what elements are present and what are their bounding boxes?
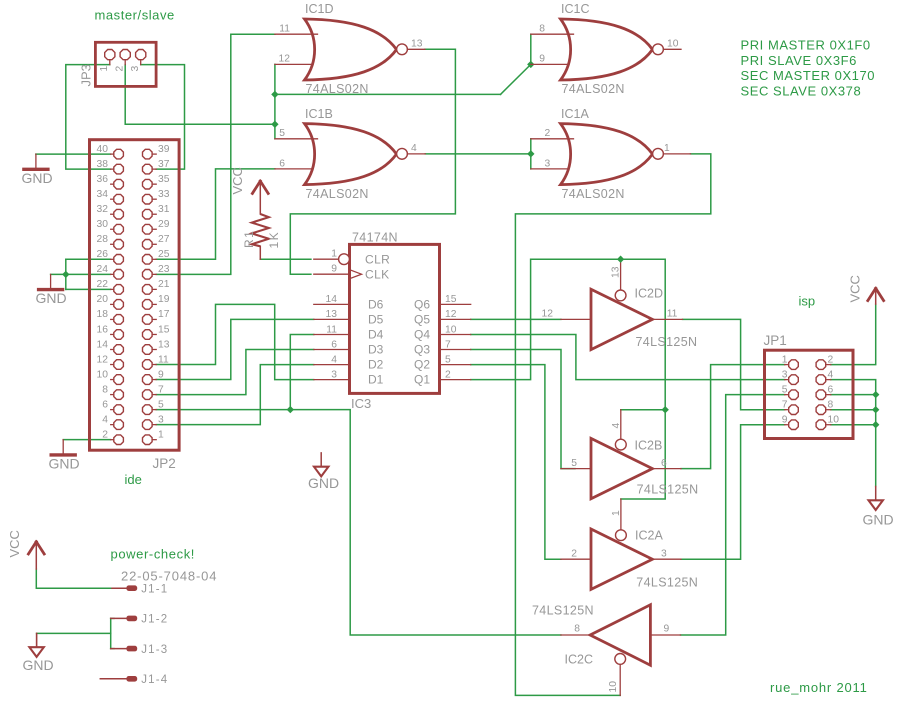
svg-text:1K: 1K	[267, 231, 281, 249]
pin J1-2	[111, 617, 127, 619]
svg-text:17: 17	[158, 309, 170, 320]
svg-text:74LS125N: 74LS125N	[637, 483, 699, 497]
pad JP1 pin 7	[789, 405, 799, 415]
svg-text:10: 10	[445, 324, 457, 335]
pin J1-1	[112, 587, 126, 589]
pad JP3 pin 2	[120, 50, 130, 60]
svg-text:6: 6	[828, 385, 834, 396]
wire JP2 pin 11 to IC3 D1	[156, 304, 314, 379]
svg-text:D1: D1	[368, 373, 384, 387]
svg-text:23: 23	[158, 264, 170, 275]
junction node B	[271, 91, 278, 98]
svg-text:6: 6	[331, 339, 337, 350]
pad JP2 pin 27	[143, 240, 153, 250]
wire IC2A pin 1 drop	[620, 499, 622, 530]
svg-text:11: 11	[279, 24, 290, 35]
svg-text:IC1A: IC1A	[561, 107, 589, 121]
pad JP2 pin 15	[143, 330, 153, 340]
svg-text:11: 11	[326, 324, 337, 335]
svg-text:1: 1	[331, 249, 337, 260]
pad JP2 pin 14	[114, 345, 124, 355]
pin J1-4	[100, 678, 126, 680]
wire JP1 pins 4 6 8 10 to GND	[831, 380, 876, 487]
pad JP2 pin 19	[143, 300, 153, 310]
pin IC3 Q1	[440, 379, 471, 381]
svg-text:JP1: JP1	[764, 333, 787, 348]
ground GND2 mid left	[50, 274, 52, 288]
pad JP3 pin 1	[105, 50, 115, 60]
buffer IC2D 74LS125N	[591, 289, 652, 349]
svg-text:74ALS02N: 74ALS02N	[562, 187, 625, 201]
wire node A up to node B (IC1D pin12)	[274, 94, 276, 124]
wire IC3 Q3 to IC2B input 5	[471, 350, 575, 469]
ground GND6 right	[875, 487, 877, 501]
svg-text:22: 22	[97, 279, 109, 290]
pad JP2 pin 16	[114, 330, 124, 340]
svg-text:5: 5	[571, 458, 577, 469]
svg-text:1: 1	[158, 429, 164, 440]
svg-text:10: 10	[828, 415, 840, 426]
pin IC3 D4	[314, 334, 350, 336]
svg-text:25: 25	[158, 249, 170, 260]
svg-text:12: 12	[542, 309, 554, 320]
svg-text:74ALS02N: 74ALS02N	[562, 82, 625, 96]
svg-text:22-05-7048-04: 22-05-7048-04	[121, 569, 217, 584]
wire IC2D output 11 to JP1 pin 7	[683, 319, 785, 409]
svg-text:5: 5	[445, 354, 451, 365]
wire node B to IC1C inputs	[275, 93, 501, 95]
svg-text:3: 3	[331, 369, 337, 380]
svg-text:Q6: Q6	[414, 297, 430, 311]
pin IC3 D5	[314, 318, 350, 320]
supply VCC near R1	[252, 181, 260, 193]
junction IC2D enable	[617, 256, 624, 263]
svg-text:12: 12	[279, 54, 291, 65]
svg-text:power-check!: power-check!	[111, 547, 196, 562]
pad JP2 pin 28	[114, 240, 124, 250]
wire IC2C input 9 to JP1 pin 5	[681, 395, 785, 635]
svg-text:IC1D: IC1D	[305, 2, 333, 16]
wire IC1C input bracket	[530, 34, 532, 64]
pin J1-3	[111, 648, 127, 650]
svg-text:isp: isp	[799, 294, 816, 309]
svg-text:30: 30	[97, 219, 109, 230]
pad JP2 pin 11	[143, 360, 153, 370]
svg-text:19: 19	[158, 294, 170, 305]
svg-text:J1-2: J1-2	[141, 614, 168, 626]
wire IC2C pin 10 stub	[619, 664, 621, 695]
svg-text:3: 3	[130, 66, 141, 72]
svg-text:D2: D2	[368, 358, 384, 372]
svg-text:18: 18	[97, 309, 109, 320]
pad JP3 pin 3	[136, 50, 146, 60]
svg-text:29: 29	[158, 219, 170, 230]
pad JP2 pin 22	[114, 285, 124, 295]
svg-text:SEC SLAVE 0X378: SEC SLAVE 0X378	[741, 84, 862, 99]
svg-text:8: 8	[574, 624, 580, 635]
svg-text:GND: GND	[36, 290, 67, 306]
resistor R1 1K	[252, 214, 269, 246]
wire IC3 Q1 to buffer enables	[471, 259, 666, 499]
supply VCC right	[868, 288, 876, 300]
pad JP2 pin 7	[143, 390, 153, 400]
pad JP2 pin 37	[143, 164, 153, 174]
ground GND1 top left	[35, 154, 37, 168]
wire JP2 pin 23 to IC1D pin 11	[156, 34, 275, 274]
svg-text:36: 36	[97, 174, 109, 185]
wire IC1A input bracket	[530, 139, 532, 169]
svg-text:74ALS02N: 74ALS02N	[306, 187, 369, 201]
svg-text:21: 21	[158, 279, 170, 290]
wire IC1B output 4 to IC1A inputs	[425, 153, 531, 155]
svg-text:5: 5	[782, 385, 788, 396]
wire IC3 Q2 to IC2A input 2	[471, 365, 561, 560]
buffer IC2C 74LS125N mirrored	[590, 605, 650, 665]
svg-text:35: 35	[158, 174, 170, 185]
svg-text:8: 8	[828, 400, 834, 411]
svg-text:3: 3	[545, 158, 551, 169]
svg-text:14: 14	[97, 339, 109, 350]
svg-text:R1: R1	[242, 230, 256, 248]
svg-text:6: 6	[661, 458, 667, 469]
svg-text:40: 40	[97, 144, 109, 155]
svg-text:rue_mohr 2011: rue_mohr 2011	[770, 680, 868, 695]
svg-text:IC1C: IC1C	[561, 2, 589, 16]
svg-text:10: 10	[667, 38, 679, 49]
svg-text:J1-1: J1-1	[141, 583, 168, 595]
pin IC3 D6	[314, 303, 350, 305]
svg-text:74LS125N: 74LS125N	[636, 576, 698, 590]
svg-text:IC1B: IC1B	[305, 107, 333, 121]
junction JP1 pin 8 GND	[872, 406, 879, 413]
junction D4 net	[287, 406, 294, 413]
pad JP1 pin 9	[789, 420, 799, 430]
svg-text:GND: GND	[308, 475, 339, 491]
svg-text:4: 4	[102, 414, 108, 425]
svg-text:27: 27	[158, 234, 170, 245]
pad JP1 pin 1	[789, 360, 799, 370]
svg-text:3: 3	[782, 370, 788, 381]
svg-text:11: 11	[667, 309, 678, 320]
svg-text:PRI SLAVE 0X3F6: PRI SLAVE 0X3F6	[741, 53, 857, 68]
svg-text:IC3: IC3	[351, 396, 371, 411]
svg-text:37: 37	[158, 159, 170, 170]
svg-text:1: 1	[99, 66, 110, 72]
svg-text:74174N: 74174N	[352, 231, 398, 245]
svg-text:J1-4: J1-4	[141, 674, 168, 686]
svg-text:13: 13	[411, 38, 423, 49]
wire R1 to IC3 CLR	[260, 258, 311, 260]
junction JP1 pin 6 GND	[872, 391, 879, 398]
ground GND5 bottom left	[36, 633, 38, 646]
svg-text:Q4: Q4	[414, 328, 430, 342]
wire JP2 pin 5 to junction	[156, 409, 290, 411]
pin IC3 CLK	[314, 273, 350, 275]
svg-text:32: 32	[97, 204, 109, 215]
svg-text:6: 6	[279, 158, 285, 169]
wire GND3 to JP2 pin 2	[63, 439, 110, 441]
wire JP2 pin 9 to IC3 D5	[156, 319, 314, 379]
pad JP2 pin 40	[114, 149, 124, 159]
pad JP2 pin 33	[143, 194, 153, 204]
svg-text:7: 7	[158, 384, 164, 395]
svg-text:3: 3	[158, 414, 164, 425]
svg-text:9: 9	[664, 624, 670, 635]
svg-text:CLK: CLK	[365, 268, 390, 282]
svg-text:8: 8	[102, 384, 108, 395]
svg-text:1: 1	[782, 355, 788, 366]
wire JP3 pin 2 down to node A	[125, 65, 275, 125]
pin IC3 Q5	[440, 318, 471, 320]
svg-text:D5: D5	[368, 312, 384, 326]
pad JP2 pin 3	[143, 420, 153, 430]
svg-text:7: 7	[782, 400, 788, 411]
svg-text:5: 5	[158, 399, 164, 410]
svg-text:10: 10	[608, 681, 619, 693]
nor gate IC1A 74ALS02N	[561, 124, 653, 185]
wire GND2 junction to JP2 pins 26 24 22	[51, 273, 66, 275]
svg-text:5: 5	[279, 128, 285, 139]
pin IC3 Q4	[440, 334, 471, 336]
pin IC3 CLR	[314, 258, 339, 260]
pad JP2 pin 10	[114, 375, 124, 385]
svg-text:1: 1	[664, 143, 670, 154]
svg-text:2: 2	[445, 369, 451, 380]
svg-text:13: 13	[611, 266, 622, 278]
wire JP3 pin 3 to JP2 pin 37	[141, 65, 185, 170]
svg-text:16: 16	[97, 324, 109, 335]
svg-text:33: 33	[158, 189, 170, 200]
svg-text:11: 11	[158, 354, 169, 365]
pad JP2 pin 9	[143, 375, 153, 385]
wire node B to IC1D pin 12	[274, 64, 276, 94]
svg-text:9: 9	[539, 54, 545, 65]
wire IC2A output 3 to JP1 pin 9	[681, 425, 785, 559]
svg-text:26: 26	[97, 249, 109, 260]
pad JP2 pin 25	[143, 255, 153, 265]
svg-text:JP3: JP3	[79, 64, 94, 86]
svg-text:14: 14	[326, 294, 338, 305]
svg-text:D4: D4	[368, 328, 384, 342]
wire JP2 pin 3 to IC3 D2	[156, 365, 314, 425]
svg-text:6: 6	[102, 399, 108, 410]
svg-text:ide: ide	[125, 472, 142, 487]
svg-text:9: 9	[158, 369, 164, 380]
pad JP2 pin 24	[114, 270, 124, 280]
pad JP2 pin 4	[114, 420, 124, 430]
pad JP1 pin 3	[789, 375, 799, 385]
svg-text:master/slave: master/slave	[95, 7, 175, 22]
svg-text:IC2A: IC2A	[635, 529, 663, 543]
supply VCC bottom left	[28, 542, 36, 554]
svg-text:2: 2	[115, 65, 126, 71]
pad JP2 pin 34	[114, 194, 124, 204]
wire VCC to J1-1	[36, 569, 112, 588]
wire enable drop to IC2D pin 13	[620, 259, 622, 290]
connector JP3	[95, 42, 156, 86]
wire IC3 Q5 to IC2D input 12	[471, 318, 561, 320]
pad JP2 pin 6	[114, 405, 124, 415]
svg-text:JP2: JP2	[153, 456, 176, 471]
svg-text:3: 3	[661, 548, 667, 559]
wire GND to JP2 pin 40	[36, 153, 111, 155]
nor gate IC1D 74ALS02N	[305, 19, 397, 80]
svg-text:D6: D6	[368, 297, 384, 311]
buffer IC2A 74LS125N	[591, 529, 652, 589]
pad JP1 pin 4	[816, 375, 826, 385]
svg-text:9: 9	[331, 264, 337, 275]
pad JP2 pin 29	[143, 224, 153, 234]
connector JP1 isp	[765, 350, 854, 438]
svg-text:8: 8	[539, 24, 545, 35]
svg-text:VCC: VCC	[848, 275, 863, 302]
junction JP1 pin 10 GND	[872, 421, 879, 428]
svg-text:4: 4	[828, 370, 834, 381]
svg-text:28: 28	[97, 234, 109, 245]
pad JP1 pin 5	[789, 390, 799, 400]
svg-text:GND: GND	[23, 657, 54, 673]
svg-text:9: 9	[782, 415, 788, 426]
svg-text:GND: GND	[49, 456, 80, 472]
pin IC3 D3	[314, 349, 350, 351]
pad JP2 pin 38	[114, 164, 124, 174]
svg-text:PRI MASTER 0X1F0: PRI MASTER 0X1F0	[741, 37, 871, 52]
wire JP2 pin 25 to IC1B pin 6	[156, 169, 275, 259]
svg-text:GND: GND	[863, 512, 894, 528]
pad JP2 pin 31	[143, 209, 153, 219]
wire diagonal to IC1C inputs	[501, 64, 531, 94]
nor gate IC1C 74ALS02N	[561, 19, 653, 80]
svg-text:24: 24	[97, 264, 109, 275]
svg-text:31: 31	[158, 204, 170, 215]
pin IC3 Q2	[440, 364, 471, 366]
pad JP2 pin 21	[143, 285, 153, 295]
pad JP2 pin 12	[114, 360, 124, 370]
svg-text:2: 2	[545, 128, 551, 139]
wire IC1D output 13 to IC3 CLK	[290, 49, 455, 274]
connector JP2 ide	[90, 140, 180, 451]
wire IC3 Q4 to JP1 pin 3	[471, 335, 785, 380]
svg-text:12: 12	[97, 354, 109, 365]
pin IC3 D2	[314, 364, 350, 366]
svg-text:2: 2	[828, 355, 834, 366]
svg-text:4: 4	[411, 143, 417, 154]
pin IC3 Q3	[440, 349, 471, 351]
wire IC2B output 6 to JP1 pin 1	[681, 365, 785, 469]
pad JP2 pin 30	[114, 224, 124, 234]
svg-text:4: 4	[611, 423, 622, 429]
svg-text:J1-3: J1-3	[141, 644, 168, 656]
pad JP2 pin 26	[114, 255, 124, 265]
svg-text:34: 34	[97, 189, 109, 200]
svg-text:38: 38	[97, 159, 109, 170]
junction GND2 branch	[62, 271, 69, 278]
svg-text:39: 39	[158, 144, 170, 155]
wire GND to J1-2 J1-3	[37, 632, 111, 634]
pad JP1 pin 2	[816, 360, 826, 370]
pad JP2 pin 39	[143, 149, 153, 159]
ground GND4 below IC3	[320, 453, 322, 467]
svg-text:VCC: VCC	[230, 167, 245, 194]
svg-text:GND: GND	[22, 170, 53, 186]
ground GND3 bottom left of JP2	[62, 440, 64, 454]
ic IC3 74174N box	[350, 244, 440, 393]
junction node A	[271, 121, 278, 128]
svg-text:2: 2	[571, 548, 577, 559]
pad JP2 pin 35	[143, 179, 153, 189]
svg-text:1: 1	[611, 510, 622, 516]
svg-text:SEC MASTER 0X170: SEC MASTER 0X170	[741, 68, 876, 83]
svg-text:Q1: Q1	[414, 373, 430, 387]
svg-text:IC2B: IC2B	[635, 438, 663, 452]
svg-text:13: 13	[158, 339, 170, 350]
svg-text:10: 10	[97, 369, 109, 380]
svg-text:Q3: Q3	[414, 343, 430, 357]
wire junction to IC2C output 8	[290, 410, 561, 635]
wire IC1A output 1 to IC2C enable 10	[515, 154, 710, 696]
buffer IC2B 74LS125N	[591, 438, 652, 498]
svg-text:Q2: Q2	[414, 358, 430, 372]
pad JP2 pin 17	[143, 315, 153, 325]
svg-text:D3: D3	[368, 343, 384, 357]
svg-text:IC2C: IC2C	[565, 653, 593, 667]
pad JP2 pin 2	[114, 435, 124, 445]
svg-text:74LS125N: 74LS125N	[532, 604, 594, 618]
pad JP1 pin 6	[816, 390, 826, 400]
pad JP1 pin 10	[816, 420, 826, 430]
wire enable branch to IC2B pin 4	[621, 409, 665, 411]
svg-text:20: 20	[97, 294, 109, 305]
svg-text:CLR: CLR	[365, 253, 390, 267]
wire VCC to JP1 pin 2	[831, 304, 876, 365]
wire JP3 pin 1 to JP2 pin 38	[66, 65, 111, 170]
svg-text:4: 4	[331, 354, 337, 365]
pad JP2 pin 8	[114, 390, 124, 400]
wire junction up to IC3 D4	[290, 335, 314, 410]
pad JP2 pin 5	[143, 405, 153, 415]
nor gate IC1B 74ALS02N	[305, 124, 397, 185]
svg-text:15: 15	[445, 294, 457, 305]
svg-text:74ALS02N: 74ALS02N	[306, 82, 369, 96]
svg-text:7: 7	[445, 339, 451, 350]
svg-text:2: 2	[102, 429, 108, 440]
svg-text:Q5: Q5	[414, 312, 430, 326]
svg-text:IC2D: IC2D	[635, 287, 663, 301]
pad JP1 pin 8	[816, 405, 826, 415]
svg-text:12: 12	[445, 309, 457, 320]
pad JP2 pin 13	[143, 345, 153, 355]
pad JP2 pin 36	[114, 179, 124, 189]
pin IC3 D1	[314, 379, 350, 381]
pad JP2 pin 1	[143, 435, 153, 445]
pad JP2 pin 18	[114, 315, 124, 325]
pad JP2 pin 23	[143, 270, 153, 280]
wire JP2 pin 7 to IC3 D3	[156, 350, 314, 395]
svg-text:VCC: VCC	[7, 530, 22, 557]
svg-text:74LS125N: 74LS125N	[636, 335, 698, 349]
pad JP2 pin 20	[114, 300, 124, 310]
junction IC1A inputs	[527, 150, 534, 157]
svg-text:13: 13	[326, 309, 338, 320]
pad JP2 pin 32	[114, 209, 124, 219]
svg-text:15: 15	[158, 324, 170, 335]
junction IC1C inputs	[527, 61, 534, 68]
pin IC3 Q6	[440, 303, 471, 305]
wire node A to IC1B pin 5	[274, 124, 276, 139]
junction IC2B enable	[662, 406, 669, 413]
